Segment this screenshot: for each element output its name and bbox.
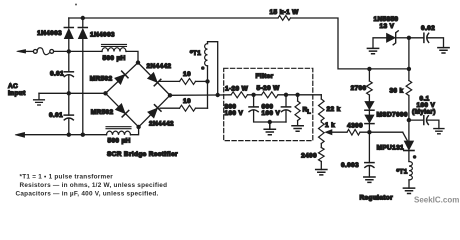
resistor 10 (top gate) (180, 78, 196, 84)
capacitor 0.003 (368, 132, 370, 162)
svg-text:100 V: 100 V (262, 110, 281, 117)
capacitor C2 0.01 (lower) (64, 114, 73, 116)
svg-text:SCR Bridge Rectifier: SCR Bridge Rectifier (107, 151, 178, 158)
junction gate resistors / T1 secondary (205, 79, 209, 83)
AC input terminal arrow (line 2) (24, 134, 69, 136)
junction diode D2 to rail (81, 16, 85, 20)
svg-text:36 k: 36 k (389, 87, 403, 94)
capacitor 800/100V (253, 95, 255, 107)
ground (AC midpoint) (34, 93, 45, 105)
svg-text:2400: 2400 (301, 152, 317, 159)
ground (0.1) (434, 129, 444, 134)
wire gate Q2 (160, 107, 180, 109)
SCR Q1 2N4442 (top-right arm) (147, 72, 161, 86)
svg-text:0.01: 0.01 (49, 112, 63, 119)
resistor 22k (320, 95, 322, 99)
junction bridge top vertex (136, 60, 140, 64)
AC input terminal arrow (line 1) (25, 50, 33, 52)
wire bridge arm top-left (106, 63, 139, 94)
svg-text:1N4003: 1N4003 (90, 32, 115, 39)
wire PUT gate (403, 132, 408, 140)
svg-text:Resistors — in ohms, 1/2 W, un: Resistors — in ohms, 1/2 W, unless speci… (20, 182, 168, 189)
svg-text:500 µH: 500 µH (108, 138, 131, 145)
capacitor 0.1 100V Mylar (409, 119, 424, 121)
svg-text:0.01: 0.01 (50, 71, 64, 78)
inductor L1 500uH (top) (102, 48, 126, 52)
svg-text:2N4442: 2N4442 (149, 121, 174, 128)
T1 polarity dot (secondary) (201, 66, 205, 70)
diode MSD7000 (upper) (365, 102, 374, 110)
capacitor 0.02 (409, 37, 424, 39)
svg-text:1 k: 1 k (325, 122, 335, 129)
svg-text:Regulator: Regulator (360, 194, 394, 201)
svg-text:MR502: MR502 (90, 76, 113, 83)
svg-text:1N4003: 1N4003 (37, 30, 62, 37)
svg-text:*T1: *T1 (190, 50, 201, 57)
capacitor 600/100V (285, 95, 287, 107)
wire gate Q1 (160, 80, 180, 82)
svg-text:10: 10 (183, 98, 191, 105)
wire AC line 1 to inductor (54, 50, 102, 52)
svg-text:0.003: 0.003 (341, 162, 359, 169)
diode MR502 (top-left arm) (114, 71, 128, 84)
svg-text:0.02: 0.02 (421, 25, 435, 32)
filter box (dashed) (224, 68, 313, 140)
svg-text:*T1: *T1 (397, 169, 408, 176)
resistor 1-20 W (231, 92, 248, 98)
ground (RL) (292, 126, 303, 131)
junction 600 cap (284, 93, 288, 97)
svg-text:22 k: 22 k (327, 106, 341, 113)
speck (scan artifact) (75, 4, 77, 6)
svg-text:4300: 4300 (347, 123, 363, 130)
wire rail to 13V node (291, 18, 409, 69)
svg-text:(Mylar): (Mylar) (412, 108, 436, 115)
resistor 5-20 W (262, 92, 279, 98)
diode MR502 (bottom-left arm) (115, 103, 129, 117)
junction 800 cap (251, 93, 255, 97)
wire top supply rail (69, 17, 278, 19)
svg-text:MR502: MR502 (91, 109, 114, 116)
ground (2400) (316, 170, 327, 175)
resistor 2700 (368, 69, 370, 81)
diode D1 1N4003 (left) (68, 39, 70, 52)
svg-text:Filter: Filter (256, 73, 274, 80)
junction 36k/0.1/PUT anode (407, 118, 411, 122)
pot wiper arrow (332, 131, 348, 133)
ground (0.003) (364, 177, 375, 182)
svg-text:10: 10 (183, 71, 191, 78)
resistor RL (297, 95, 299, 101)
wire AC line 2 (69, 134, 107, 136)
svg-text:Input: Input (8, 90, 26, 97)
wire bridge arm bottom-right (139, 95, 170, 127)
junction filter caps common (268, 120, 272, 124)
svg-text:2N4442: 2N4442 (147, 63, 172, 70)
wire inductor to bridge top vertex (126, 51, 138, 62)
svg-text:Capacitors — in µF, 400 V, unl: Capacitors — in µF, 400 V, unless specif… (16, 191, 159, 198)
inductor L2 500uH (bottom) (107, 131, 131, 135)
wire bridge arm bottom-left (106, 93, 139, 127)
junction 13V rail / 36k (407, 67, 411, 71)
svg-text:5-20 W: 5-20 W (257, 85, 281, 92)
capacitor C1 0.01 (upper) (68, 51, 70, 71)
junction zener/0.02/36k (407, 36, 411, 40)
ground (zener anode) (367, 48, 378, 53)
junction 4300/MSD7000/0.003 (367, 130, 371, 134)
wire DC bus (170, 94, 231, 97)
svg-text:*T1 = 1 • 1 pulse transformer: *T1 = 1 • 1 pulse transformer (20, 173, 114, 180)
ground (T1 primary) (403, 188, 414, 193)
junction cap midpoint (67, 91, 71, 95)
wire inductor to bridge bottom vertex (131, 127, 139, 135)
junction bridge right vertex (168, 93, 172, 97)
fuse F1 (line 1) (33, 50, 37, 54)
resistor 36k (406, 81, 412, 96)
junction bridge left vertex (103, 91, 107, 95)
svg-text:1-20 W: 1-20 W (225, 86, 249, 93)
svg-text:500 µH: 500 µH (103, 55, 126, 62)
diode MSD7000 (lower) (365, 115, 374, 123)
PUT MPU131 (408, 120, 410, 141)
wire bridge arm top-right (138, 63, 170, 96)
junction bridge bottom vertex (136, 125, 140, 129)
ground (filter caps) (264, 122, 275, 135)
svg-text:MPU131: MPU131 (377, 144, 404, 151)
svg-text:2700: 2700 (351, 85, 367, 92)
potentiometer 1k (320, 121, 322, 123)
wire ground tee (39, 92, 106, 94)
wire 13V node vertical (408, 38, 410, 81)
transformer T1 secondary winding (207, 66, 209, 82)
junction diode D2 to line 2 (81, 133, 85, 137)
svg-text:15 k-1 W: 15 k-1 W (270, 9, 300, 16)
T1 polarity dot (primary) (413, 155, 417, 159)
svg-text:13 V: 13 V (380, 23, 395, 30)
junction fuse/diode D1 node (67, 49, 71, 53)
resistor 2400 (320, 144, 322, 148)
SCR Q2 2N4442 (bottom-right arm) (148, 105, 162, 119)
svg-text:100 V: 100 V (225, 110, 244, 117)
svg-text:L: L (307, 109, 311, 115)
resistor 10 (bottom gate) (180, 105, 196, 111)
junction RL (295, 93, 299, 97)
junction T1 secondary to bus (216, 93, 220, 97)
ground (0.02) (438, 48, 449, 53)
diode D2 1N4003 (right) (82, 39, 84, 135)
svg-text:1N5859: 1N5859 (374, 16, 399, 23)
transformer T1 primary winding (408, 151, 410, 162)
zener D5 1N5859 (373, 38, 387, 49)
resistor 4300 (347, 129, 360, 135)
svg-text:MSD7000: MSD7000 (377, 111, 408, 118)
resistor R 15k-1W (278, 16, 291, 21)
svg-text:SeekIC.com: SeekIC.com (414, 196, 459, 205)
wire gate common vertical (207, 81, 209, 108)
junction cap chain to line 2 (67, 133, 71, 137)
junction 13V rail / 2700 (367, 67, 371, 71)
